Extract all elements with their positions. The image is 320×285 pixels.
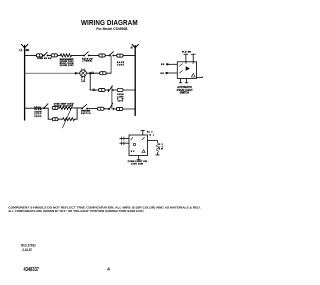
svg-text:4: 4 <box>107 267 110 272</box>
svg-text:BR 2: BR 2 <box>161 73 167 75</box>
svg-text:SENS: SENS <box>34 116 42 118</box>
svg-text:BK: BK <box>26 48 30 52</box>
svg-text:SW: SW <box>81 81 85 83</box>
svg-text:BK 1: BK 1 <box>161 64 167 66</box>
svg-text:L1: L1 <box>19 48 23 52</box>
svg-text:OVEN SW: OVEN SW <box>37 58 47 60</box>
svg-text:3410W 240V: 3410W 240V <box>60 64 75 67</box>
svg-text:SWITCH: SWITCH <box>81 113 91 115</box>
svg-text:SWITCH: SWITCH <box>180 92 189 95</box>
svg-text:120V: 120V <box>118 101 124 103</box>
svg-text:4348337: 4348337 <box>24 267 40 273</box>
svg-text:PL B: PL B <box>182 52 187 54</box>
svg-text:SU: SU <box>131 151 135 153</box>
svg-text:CONT: CONT <box>117 64 125 66</box>
svg-text:2350W 240V BR: 2350W 240V BR <box>54 104 74 107</box>
svg-text:NW: NW <box>188 52 191 54</box>
svg-text:(TIMER): (TIMER) <box>83 61 93 63</box>
svg-text:120V 40W: 120V 40W <box>131 163 144 166</box>
svg-text:3-18-87: 3-18-87 <box>22 248 32 252</box>
svg-text:BL 3: BL 3 <box>147 131 152 133</box>
svg-text:SW: SW <box>48 58 52 60</box>
svg-text:For Model CS4950B: For Model CS4950B <box>96 26 127 31</box>
svg-text:SW: SW <box>159 149 163 151</box>
svg-text:N: N <box>131 46 133 50</box>
svg-text:ALL COMPONENTS ARE SHOWN IN "O: ALL COMPONENTS ARE SHOWN IN "OFF" OR "RE… <box>8 209 144 213</box>
